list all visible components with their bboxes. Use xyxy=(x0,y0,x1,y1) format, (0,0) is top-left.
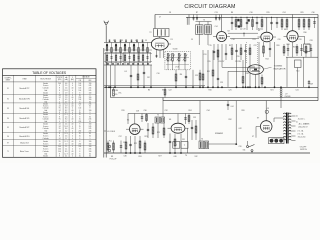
svg-text:T4: T4 xyxy=(185,155,187,157)
svg-text:12.7: 12.7 xyxy=(65,153,68,155)
svg-text:4.6: 4.6 xyxy=(65,136,67,138)
svg-text:C28: C28 xyxy=(136,111,139,113)
svg-text:S1-S8: S1-S8 xyxy=(173,49,178,51)
svg-text:4: 4 xyxy=(59,99,60,101)
svg-text:0: 0 xyxy=(72,93,73,95)
svg-text:0: 0 xyxy=(72,90,73,92)
svg-text:T1: T1 xyxy=(7,151,9,153)
svg-text:ON: ON xyxy=(79,80,81,82)
svg-text:V2: V2 xyxy=(227,31,229,33)
svg-text:30: 30 xyxy=(89,101,91,103)
svg-text:8.9: 8.9 xyxy=(65,108,67,110)
svg-text:25: 25 xyxy=(79,112,81,114)
svg-text:R31: R31 xyxy=(138,156,141,158)
svg-text:R13: R13 xyxy=(252,39,255,41)
svg-text:L13: L13 xyxy=(266,108,269,110)
svg-text:130: 130 xyxy=(89,123,92,125)
svg-text:9: 9 xyxy=(89,138,90,140)
svg-text:25: 25 xyxy=(79,133,81,135)
svg-text:2.7: 2.7 xyxy=(65,121,67,123)
svg-text:V6: V6 xyxy=(169,119,171,121)
svg-text:30: 30 xyxy=(89,156,91,158)
svg-text:40-100 C.: 40-100 C. xyxy=(298,119,306,121)
svg-text:245: 245 xyxy=(89,119,92,121)
svg-text:40: 40 xyxy=(72,128,74,130)
svg-text:R27: R27 xyxy=(293,47,296,49)
svg-text:C1: C1 xyxy=(113,40,115,42)
svg-text:130: 130 xyxy=(89,144,92,146)
svg-text:R27: R27 xyxy=(158,156,161,158)
svg-text:R16 330: R16 330 xyxy=(112,90,118,92)
svg-text:8: 8 xyxy=(79,101,80,103)
svg-text:40: 40 xyxy=(72,88,74,90)
svg-text:0: 0 xyxy=(72,83,73,85)
svg-text:Screen: Screen xyxy=(43,149,48,151)
svg-text:C30: C30 xyxy=(311,12,314,14)
svg-text:VOL: VOL xyxy=(114,94,117,96)
svg-text:130: 130 xyxy=(89,141,92,143)
svg-text:0: 0 xyxy=(72,116,73,118)
svg-text:230: 230 xyxy=(78,97,81,99)
svg-text:C29: C29 xyxy=(307,44,310,46)
svg-text:C11: C11 xyxy=(195,75,198,77)
svg-text:V2: V2 xyxy=(7,98,9,100)
svg-text:Mains Trans.: Mains Trans. xyxy=(20,151,30,153)
svg-text:24: 24 xyxy=(59,110,61,112)
svg-text:4: 4 xyxy=(72,108,73,110)
svg-text:C4: C4 xyxy=(124,71,126,73)
svg-text:L.S. FIELD: L.S. FIELD xyxy=(107,131,116,133)
svg-text:C14: C14 xyxy=(214,26,217,28)
svg-text:350-0-350: 350-0-350 xyxy=(298,137,306,139)
svg-text:R18: R18 xyxy=(245,73,248,75)
svg-text:25: 25 xyxy=(79,95,81,97)
svg-text:8: 8 xyxy=(79,153,80,155)
svg-text:245: 245 xyxy=(89,131,92,133)
svg-text:25: 25 xyxy=(79,114,81,116)
svg-text:Grid: Grid xyxy=(44,131,47,133)
svg-text:R19: R19 xyxy=(121,110,124,112)
svg-text:8: 8 xyxy=(79,141,80,143)
svg-text:30: 30 xyxy=(89,106,91,108)
svg-text:4v: 4v xyxy=(296,116,298,118)
svg-text:100: 100 xyxy=(78,83,81,85)
svg-text:R21: R21 xyxy=(270,90,273,92)
svg-text:230: 230 xyxy=(78,121,81,123)
svg-text:4: 4 xyxy=(59,85,60,87)
svg-text:INDICATOR: INDICATOR xyxy=(274,67,286,70)
svg-text:0: 0 xyxy=(72,136,73,138)
svg-text:Grid: Grid xyxy=(44,153,47,155)
svg-text:CIRCUIT DIAGRAM: CIRCUIT DIAGRAM xyxy=(184,4,235,10)
svg-text:30: 30 xyxy=(89,153,91,155)
svg-text:30: 30 xyxy=(89,116,91,118)
svg-text:Mazda UU3: Mazda UU3 xyxy=(20,142,29,144)
svg-text:R28: R28 xyxy=(286,44,289,46)
svg-text:0: 0 xyxy=(72,126,73,128)
svg-text:ITEM: ITEM xyxy=(22,78,27,80)
svg-text:S10: S10 xyxy=(296,71,299,73)
svg-text:200: 200 xyxy=(58,146,61,148)
svg-text:0: 0 xyxy=(72,85,73,87)
svg-text:C22: C22 xyxy=(253,45,256,47)
svg-text:C41: C41 xyxy=(295,90,298,92)
svg-text:24: 24 xyxy=(59,95,61,97)
svg-text:C20: C20 xyxy=(236,56,239,58)
svg-text:200: 200 xyxy=(58,83,61,85)
svg-text:V6: V6 xyxy=(7,136,9,138)
svg-text:12.6: 12.6 xyxy=(65,126,68,128)
svg-text:2.3: 2.3 xyxy=(65,144,67,146)
svg-text:25: 25 xyxy=(79,136,81,138)
svg-text:(PIN): (PIN) xyxy=(58,79,62,81)
svg-text:C28: C28 xyxy=(309,40,312,42)
svg-text:VOL: VOL xyxy=(118,93,121,95)
svg-text:245: 245 xyxy=(89,149,92,151)
svg-text:4: 4 xyxy=(59,93,60,95)
svg-text:30: 30 xyxy=(89,133,91,135)
svg-text:L7 L8: L7 L8 xyxy=(175,67,179,69)
svg-text:R22: R22 xyxy=(134,143,137,145)
svg-text:40: 40 xyxy=(72,144,74,146)
svg-text:0: 0 xyxy=(72,112,73,114)
svg-text:C3: C3 xyxy=(145,40,147,42)
svg-text:40: 40 xyxy=(72,153,74,155)
svg-text:Screen: Screen xyxy=(43,126,48,128)
svg-text:S11: S11 xyxy=(243,150,246,152)
svg-text:V4: V4 xyxy=(284,29,286,31)
svg-text:4: 4 xyxy=(72,146,73,148)
svg-text:C18: C18 xyxy=(231,39,234,41)
svg-text:100: 100 xyxy=(78,99,81,101)
svg-text:200: 200 xyxy=(58,151,61,153)
svg-text:R4: R4 xyxy=(180,74,182,76)
svg-text:8: 8 xyxy=(59,156,60,158)
svg-text:V4: V4 xyxy=(7,118,9,120)
svg-text:C22: C22 xyxy=(168,90,171,92)
svg-text:40: 40 xyxy=(72,141,74,143)
svg-text:C34: C34 xyxy=(206,110,209,112)
svg-text:40: 40 xyxy=(72,106,74,108)
svg-text:4: 4 xyxy=(72,133,73,135)
svg-text:130: 130 xyxy=(89,97,92,99)
svg-text:C27: C27 xyxy=(304,52,307,54)
svg-text:9: 9 xyxy=(89,112,90,114)
svg-text:25: 25 xyxy=(79,126,81,128)
svg-text:NENT: NENT xyxy=(6,79,11,81)
svg-text:Screen: Screen xyxy=(43,85,48,87)
svg-text:C13: C13 xyxy=(214,12,217,14)
svg-text:4.6: 4.6 xyxy=(65,123,67,125)
svg-text:30: 30 xyxy=(89,121,91,123)
svg-text:Grid: Grid xyxy=(44,90,47,92)
svg-text:2.5: 2.5 xyxy=(65,85,67,87)
svg-text:Screen: Screen xyxy=(43,97,48,99)
svg-text:R20: R20 xyxy=(276,45,279,47)
svg-text:40: 40 xyxy=(72,97,74,99)
svg-text:130: 130 xyxy=(89,99,92,101)
svg-text:0: 0 xyxy=(72,138,73,140)
svg-text:8: 8 xyxy=(79,149,80,151)
svg-text:C32: C32 xyxy=(164,110,167,112)
svg-text:24: 24 xyxy=(59,126,61,128)
svg-text:R15: R15 xyxy=(266,12,269,14)
svg-text:T2: T2 xyxy=(149,32,151,34)
svg-text:24: 24 xyxy=(59,131,61,133)
svg-text:130: 130 xyxy=(89,151,92,153)
svg-text:R32: R32 xyxy=(228,119,231,121)
svg-text:230: 230 xyxy=(78,104,81,106)
svg-text:40: 40 xyxy=(72,110,74,112)
svg-text:8: 8 xyxy=(79,128,80,130)
svg-text:2.9: 2.9 xyxy=(65,93,67,95)
svg-text:2.2: 2.2 xyxy=(65,131,67,133)
svg-text:R14: R14 xyxy=(265,59,268,61)
svg-text:8: 8 xyxy=(79,93,80,95)
svg-text:C15: C15 xyxy=(208,45,211,47)
svg-text:S12: S12 xyxy=(194,156,197,158)
svg-text:V7: V7 xyxy=(252,136,254,138)
svg-text:V: V xyxy=(72,77,73,79)
svg-text:C2: C2 xyxy=(121,40,123,42)
svg-text:C37: C37 xyxy=(118,136,121,138)
svg-text:2.9: 2.9 xyxy=(65,97,67,99)
svg-text:8: 8 xyxy=(59,90,60,92)
svg-text:24: 24 xyxy=(59,138,61,140)
svg-text:0: 0 xyxy=(72,101,73,103)
svg-text:C7: C7 xyxy=(159,17,161,19)
svg-text:C8: C8 xyxy=(169,12,171,14)
svg-text:Screen: Screen xyxy=(43,144,48,146)
svg-text:8: 8 xyxy=(79,138,80,140)
svg-text:8.9: 8.9 xyxy=(65,151,67,153)
svg-text:245: 245 xyxy=(89,90,92,92)
svg-text:TUNING: TUNING xyxy=(274,66,283,68)
svg-text:V7: V7 xyxy=(257,118,259,120)
svg-text:40: 40 xyxy=(72,151,74,153)
svg-text:8: 8 xyxy=(59,112,60,114)
svg-text:C24: C24 xyxy=(282,12,285,14)
svg-text:200: 200 xyxy=(58,149,61,151)
svg-text:V1: V1 xyxy=(170,39,172,41)
svg-text:9: 9 xyxy=(89,95,90,97)
svg-text:2.4: 2.4 xyxy=(65,116,67,118)
svg-text:40: 40 xyxy=(72,104,74,106)
svg-text:230: 230 xyxy=(78,146,81,148)
svg-text:R8: R8 xyxy=(231,12,233,14)
svg-text:L3: L3 xyxy=(135,40,137,42)
svg-text:12.1: 12.1 xyxy=(65,114,68,116)
svg-text:245: 245 xyxy=(89,128,92,130)
svg-text:95: 95 xyxy=(59,141,61,143)
svg-text:9: 9 xyxy=(89,108,90,110)
svg-text:4.1: 4.1 xyxy=(65,156,67,158)
svg-text:R25: R25 xyxy=(157,132,160,134)
svg-text:R16: R16 xyxy=(208,90,211,92)
svg-text:4.5: 4.5 xyxy=(65,99,67,101)
svg-text:8: 8 xyxy=(79,151,80,153)
svg-text:4: 4 xyxy=(72,149,73,151)
svg-text:24: 24 xyxy=(59,144,61,146)
svg-text:95: 95 xyxy=(59,128,61,130)
svg-text:130: 130 xyxy=(89,93,92,95)
svg-text:25: 25 xyxy=(79,156,81,158)
svg-text:4v: 4v xyxy=(296,122,298,124)
svg-text:R23: R23 xyxy=(144,136,147,138)
svg-text:SPEAKER: SPEAKER xyxy=(215,132,224,135)
svg-text:V1: V1 xyxy=(7,88,9,90)
svg-text:V3: V3 xyxy=(7,108,9,110)
svg-text:4: 4 xyxy=(59,114,60,116)
svg-text:C23: C23 xyxy=(220,82,223,84)
svg-text:4: 4 xyxy=(72,95,73,97)
svg-text:4: 4 xyxy=(59,121,60,123)
svg-text:200-250 V.: 200-250 V. xyxy=(298,127,308,129)
svg-text:C35: C35 xyxy=(123,142,126,144)
svg-text:C21 R10: C21 R10 xyxy=(235,61,241,63)
svg-text:R2: R2 xyxy=(147,77,149,79)
svg-text:95: 95 xyxy=(59,108,61,110)
svg-text:8: 8 xyxy=(79,110,80,112)
svg-text:V7: V7 xyxy=(7,142,9,144)
svg-text:24: 24 xyxy=(59,123,61,125)
svg-text:24: 24 xyxy=(59,97,61,99)
svg-text:4.6: 4.6 xyxy=(65,83,67,85)
svg-text:24: 24 xyxy=(59,106,61,108)
svg-text:230: 230 xyxy=(78,131,81,133)
svg-text:2.7: 2.7 xyxy=(65,138,67,140)
svg-text:SWITCH: SWITCH xyxy=(300,149,307,151)
svg-text:Screen: Screen xyxy=(43,106,48,108)
svg-text:100: 100 xyxy=(78,85,81,87)
svg-text:40: 40 xyxy=(72,119,74,121)
svg-text:C39: C39 xyxy=(239,146,242,148)
svg-text:T3: T3 xyxy=(203,19,205,21)
svg-text:2.1: 2.1 xyxy=(65,149,67,151)
svg-text:100: 100 xyxy=(78,88,81,90)
svg-text:V5: V5 xyxy=(7,127,9,129)
svg-text:C10: C10 xyxy=(156,73,159,75)
svg-text:245: 245 xyxy=(89,85,92,87)
svg-text:230: 230 xyxy=(78,144,81,146)
svg-text:8: 8 xyxy=(79,123,80,125)
svg-text:8: 8 xyxy=(59,88,60,90)
svg-text:CHOKE: CHOKE xyxy=(284,96,291,98)
svg-text:C25: C25 xyxy=(228,90,231,92)
svg-text:R29: R29 xyxy=(300,12,303,14)
svg-text:R9 C17: R9 C17 xyxy=(219,61,225,63)
svg-text:Screen: Screen xyxy=(43,136,48,138)
svg-text:12.5: 12.5 xyxy=(65,104,68,106)
svg-text:95: 95 xyxy=(59,119,61,121)
svg-text:C30: C30 xyxy=(143,110,146,112)
svg-text:4: 4 xyxy=(72,131,73,133)
svg-text:130: 130 xyxy=(89,110,92,112)
svg-text:8: 8 xyxy=(59,153,60,155)
svg-text:130: 130 xyxy=(89,146,92,148)
svg-text:245: 245 xyxy=(89,126,92,128)
svg-text:30: 30 xyxy=(89,136,91,138)
svg-text:C42: C42 xyxy=(238,128,241,130)
svg-text:2.9: 2.9 xyxy=(65,106,67,108)
svg-text:C20: C20 xyxy=(204,54,207,56)
svg-text:4 V. 2 A.: 4 V. 2 A. xyxy=(297,133,304,136)
svg-text:8.5: 8.5 xyxy=(65,112,67,114)
svg-text:VOLTS: VOLTS xyxy=(57,77,62,79)
svg-text:C49: C49 xyxy=(310,84,313,86)
svg-text:Grid: Grid xyxy=(44,121,47,123)
svg-text:2.8: 2.8 xyxy=(65,95,67,97)
svg-text:4 V. 4 A.: 4 V. 4 A. xyxy=(297,130,304,133)
svg-text:C33: C33 xyxy=(193,117,196,119)
svg-text:8.2: 8.2 xyxy=(65,110,67,112)
svg-text:T6: T6 xyxy=(201,139,203,141)
svg-text:12.1: 12.1 xyxy=(65,141,68,143)
svg-text:PICK-UP: PICK-UP xyxy=(110,159,118,161)
svg-text:M1: M1 xyxy=(111,156,113,158)
svg-text:R11: R11 xyxy=(207,71,210,73)
svg-text:2.6: 2.6 xyxy=(65,88,67,90)
svg-text:C26: C26 xyxy=(277,39,280,41)
svg-text:V3: V3 xyxy=(258,30,260,32)
svg-text:V5: V5 xyxy=(127,120,129,122)
svg-text:Grid: Grid xyxy=(44,101,47,103)
svg-text:4: 4 xyxy=(72,114,73,116)
svg-text:R6: R6 xyxy=(148,90,150,92)
svg-text:25: 25 xyxy=(79,119,81,121)
svg-text:Screen: Screen xyxy=(43,116,48,118)
svg-text:T5: T5 xyxy=(157,115,159,117)
svg-text:C31: C31 xyxy=(182,139,185,141)
svg-text:R9: R9 xyxy=(229,45,231,47)
svg-text:R7: R7 xyxy=(196,12,198,14)
svg-text:4: 4 xyxy=(72,99,73,101)
svg-text:4.7: 4.7 xyxy=(65,101,67,103)
svg-text:40: 40 xyxy=(72,123,74,125)
svg-text:Grid: Grid xyxy=(44,110,47,112)
svg-text:4: 4 xyxy=(59,101,60,103)
svg-text:C40: C40 xyxy=(173,156,176,158)
svg-text:2.1: 2.1 xyxy=(65,146,67,148)
svg-text:4: 4 xyxy=(72,121,73,123)
svg-text:12.0: 12.0 xyxy=(65,90,68,92)
svg-text:S9: S9 xyxy=(162,90,164,92)
svg-text:12.9: 12.9 xyxy=(65,133,68,135)
svg-text:OFF: OFF xyxy=(88,80,91,82)
svg-text:100: 100 xyxy=(78,108,81,110)
svg-text:C36: C36 xyxy=(123,156,126,158)
svg-text:8.6: 8.6 xyxy=(65,128,67,130)
svg-text:C9: C9 xyxy=(191,39,193,41)
svg-text:9: 9 xyxy=(89,114,90,116)
svg-text:8.0: 8.0 xyxy=(65,119,67,121)
svg-text:TABLE OF VOLTAGES: TABLE OF VOLTAGES xyxy=(32,71,67,75)
svg-text:C26: C26 xyxy=(298,39,301,41)
svg-text:130: 130 xyxy=(89,83,92,85)
svg-text:8: 8 xyxy=(79,116,80,118)
svg-text:8: 8 xyxy=(79,106,80,108)
svg-text:245: 245 xyxy=(89,88,92,90)
svg-text:95: 95 xyxy=(59,104,61,106)
svg-text:A.C. MAINS: A.C. MAINS xyxy=(299,123,310,126)
svg-text:C16: C16 xyxy=(249,12,252,14)
svg-text:245: 245 xyxy=(89,104,92,106)
svg-text:R24: R24 xyxy=(188,110,191,112)
svg-text:8: 8 xyxy=(59,116,60,118)
svg-text:100: 100 xyxy=(78,90,81,92)
svg-text:C19: C19 xyxy=(242,29,245,31)
svg-text:R26: R26 xyxy=(241,110,244,112)
